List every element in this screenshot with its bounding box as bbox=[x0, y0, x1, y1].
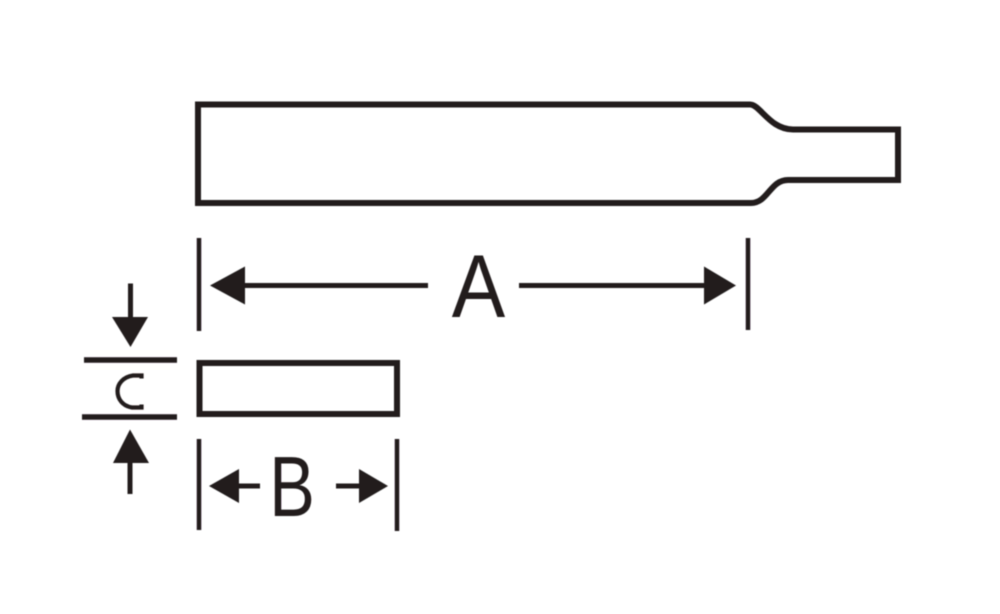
dimension C up arrow stem bbox=[128, 462, 133, 494]
dimension C up arrowhead bbox=[113, 430, 149, 464]
svg-text:A: A bbox=[452, 236, 506, 336]
file body outline bbox=[198, 105, 898, 204]
dimension C down arrowhead bbox=[112, 317, 148, 347]
label C bbox=[118, 376, 142, 408]
dimension B left extension tick bbox=[197, 439, 202, 530]
svg-text:B: B bbox=[269, 440, 315, 535]
dimension A right arrow shaft bbox=[519, 283, 706, 288]
dimension A right extension tick bbox=[746, 238, 751, 330]
dimension A right arrowhead bbox=[704, 267, 736, 305]
dimension B left arrowhead bbox=[209, 469, 239, 503]
dimension C bottom extension line bbox=[82, 414, 177, 420]
dimension B right arrowhead bbox=[359, 469, 388, 503]
dimension C down arrow stem bbox=[128, 284, 133, 318]
dimension C top extension line bbox=[84, 357, 177, 363]
dimension B right extension tick bbox=[395, 439, 400, 531]
dimension B left arrow shaft bbox=[238, 484, 260, 489]
dimension B right arrow shaft bbox=[336, 484, 360, 489]
dimension A left arrowhead bbox=[210, 267, 245, 305]
dimension A left extension tick bbox=[197, 238, 202, 331]
dimension A left arrow shaft bbox=[243, 283, 428, 288]
cross-section rectangle bbox=[200, 363, 398, 414]
